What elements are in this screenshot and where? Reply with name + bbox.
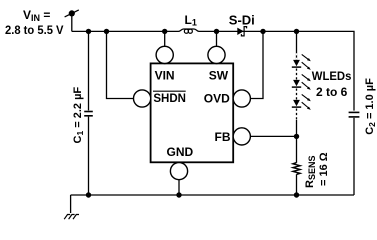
svg-text:= 16 Ω: = 16 Ω (318, 152, 330, 186)
svg-text:GND: GND (167, 145, 194, 159)
wire WLED chain (dashed sections) (296, 31, 298, 60)
node LED chain/rail (294, 29, 299, 34)
wire VIN terminal to top rail (71, 13, 73, 31)
pin SW circle (208, 46, 225, 63)
svg-text:2 to 6: 2 to 6 (316, 85, 348, 99)
node VIN pin/rail (162, 29, 167, 34)
svg-text:SW: SW (209, 68, 229, 82)
overline SHDN (153, 90, 186, 92)
resistor RSENS (293, 163, 300, 175)
wire FB node to resistor (296, 136, 298, 162)
LED D2 (292, 74, 311, 90)
pin GND circle (170, 163, 187, 180)
wire ground stub (70, 195, 72, 213)
svg-text:OVD: OVD (204, 91, 230, 105)
node OVD/rail (260, 29, 265, 34)
diode S-Di (schottky) (237, 27, 246, 36)
svg-text:RSENS: RSENS (304, 156, 317, 188)
capacitor C2 (349, 112, 360, 117)
ground (64, 215, 79, 220)
wire top rail (right of L1) (199, 31, 354, 110)
pin SHDN circle (134, 90, 151, 107)
svg-text:WLEDs: WLEDs (312, 69, 352, 83)
wire SW pin to rail (216, 31, 218, 46)
node SW pin/rail (214, 29, 219, 34)
op-amp U1 IC body (151, 63, 234, 162)
inductor L1 (179, 29, 200, 33)
node FB/RSENS (294, 134, 299, 139)
svg-text:SHDN: SHDN (153, 93, 186, 105)
wire SHDN pin to rail (107, 31, 134, 98)
wire FB pin to LED node (251, 135, 297, 137)
wire dashed between D1 and D2 (296, 69, 298, 80)
node GND pin/bottom rail (176, 192, 181, 197)
wire bottom rail (71, 194, 354, 196)
svg-text:S-Di: S-Di (229, 13, 255, 28)
pin VIN circle (156, 46, 173, 63)
node SHDN/rail (104, 29, 109, 34)
svg-text:C2 = 1.0 µF: C2 = 1.0 µF (364, 78, 377, 135)
svg-text:VIN: VIN (155, 68, 175, 82)
wire top rail (left of L1) (72, 30, 179, 32)
junction node dots (86, 29, 299, 198)
svg-text:FB: FB (215, 130, 231, 144)
LED D3 (292, 94, 311, 110)
wire GND pin to bottom rail (178, 180, 180, 195)
wire dashed between D2 and D3 (296, 89, 298, 100)
pin OVD circle (233, 90, 250, 107)
wire resistor to bottom rail (296, 174, 298, 195)
svg-text:2.8 to 5.5 V: 2.8 to 5.5 V (5, 23, 64, 37)
svg-text:C1 = 2.2 µF: C1 = 2.2 µF (72, 87, 85, 144)
node C1/rail (86, 29, 91, 34)
node RSENS/bottom rail (294, 192, 299, 197)
node VIN input terminal (65, 10, 79, 17)
wire OVD pin to rail (251, 31, 264, 98)
pin FB circle (233, 128, 250, 145)
wire C1 branch (top) (88, 31, 90, 110)
wire dashed below D3 then solid to FB node (296, 109, 298, 137)
node C1/bottom rail (86, 192, 91, 197)
wire C2 branch (bottom) (353, 118, 355, 195)
capacitor C1 (84, 112, 93, 116)
wire C1 branch (bottom) (88, 117, 90, 195)
LED D1 (292, 54, 311, 70)
wire VIN pin to rail (164, 31, 166, 46)
